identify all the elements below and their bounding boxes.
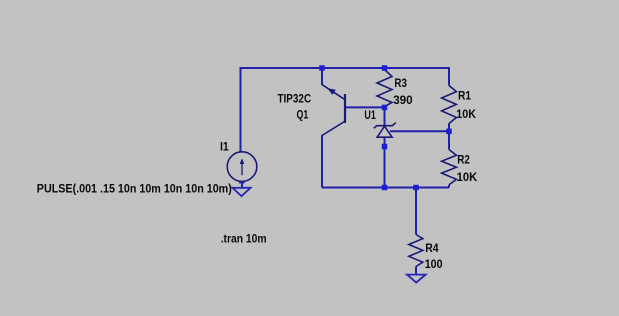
- junction node at U1 anode pin: [382, 144, 388, 150]
- svg-text:10K: 10K: [457, 170, 478, 184]
- junction node at bottom rail / U1 branch: [382, 185, 388, 191]
- junction node at bottom rail / R4 branch: [413, 185, 419, 191]
- svg-text:.tran 10m: .tran 10m: [221, 232, 267, 246]
- current source I1 bottom stem: [241, 181, 243, 188]
- svg-text:390: 390: [393, 93, 413, 107]
- transistor Q1 emitter arrow (PNP): [327, 88, 336, 95]
- wire R1 bottom stem: [448, 124, 450, 132]
- svg-text:10K: 10K: [456, 107, 476, 121]
- svg-text:R2: R2: [457, 152, 470, 166]
- wire Q1 collector vertical: [321, 135, 323, 188]
- svg-text:U1: U1: [364, 108, 376, 122]
- ground under R4: [407, 275, 426, 283]
- svg-text:Q1: Q1: [297, 107, 309, 121]
- resistor R3 zigzag: [377, 70, 392, 107]
- wire R4 stems: [415, 188, 417, 235]
- wire Q1 emitter stub: [321, 68, 323, 85]
- wire Q1 base to R3/U1 node: [345, 106, 385, 108]
- junction node at R3 bottom / base / U1 cathode: [382, 105, 388, 111]
- junction node at R1/R2 divider / U1 ref: [446, 129, 452, 135]
- wire top rail from I1 branch to R1 branch: [241, 68, 450, 152]
- transistor Q1 base bar: [344, 94, 346, 123]
- wire U1 anode stem down to bottom rail: [384, 137, 386, 187]
- shunt reference U1 cathode bar (zener style): [374, 123, 396, 129]
- shunt reference U1 triangle: [377, 126, 392, 137]
- wire U1 cathode stem: [384, 107, 386, 126]
- ground under I1: [233, 188, 251, 196]
- wire bottom rail: [322, 187, 449, 189]
- wire U1 ref to R1/R2 divider node: [390, 130, 449, 132]
- resistor R2 zigzag: [442, 150, 457, 185]
- transistor Q1 emitter diagonal: [322, 85, 345, 100]
- svg-text:R3: R3: [394, 76, 407, 90]
- resistor R1 zigzag: [442, 86, 457, 124]
- current source I1 circle: [227, 152, 257, 182]
- wire R2 stems: [448, 131, 450, 149]
- svg-text:100: 100: [425, 257, 443, 271]
- svg-text:PULSE(.001 .15 10n 10m 10n 10n: PULSE(.001 .15 10n 10m 10n 10n 10m): [37, 182, 232, 196]
- svg-text:TIP32C: TIP32C: [278, 92, 312, 106]
- svg-text:R1: R1: [458, 89, 471, 103]
- svg-text:R4: R4: [425, 241, 439, 255]
- current source I1 arrow: [241, 161, 243, 175]
- junction node at Q1 emitter / top rail: [319, 65, 325, 71]
- resistor R4 zigzag: [409, 235, 423, 267]
- junction node at R3 top / top rail: [382, 65, 388, 71]
- svg-text:I1: I1: [220, 139, 229, 153]
- transistor Q1 collector diagonal: [322, 122, 345, 136]
